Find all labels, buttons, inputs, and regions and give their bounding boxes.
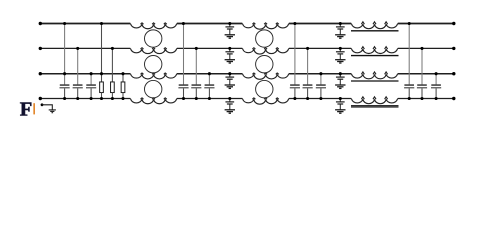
resistor R1: [100, 82, 104, 93]
node junction row 3 x=229.8: [228, 72, 231, 75]
svg-text:F: F: [20, 98, 33, 120]
wire to neutral: [101, 93, 103, 99]
node junction row 4 x=64.6: [63, 97, 66, 100]
capacitor Cg4 to ground on row 4: [229, 99, 231, 102]
cursor bar (orange): [33, 103, 35, 114]
capacitor C10: [404, 84, 414, 86]
node junction row 4 x=101.5: [100, 97, 103, 100]
node junction row 2 x=340.3: [339, 47, 342, 50]
wire to neutral: [307, 88, 309, 98]
wire to neutral: [77, 88, 79, 98]
node junction row 4 x=307.6: [306, 97, 309, 100]
node terminal left row 3: [39, 72, 42, 75]
capacitor C9: [316, 84, 326, 86]
capacitor C6: [205, 84, 215, 86]
node junction row 3 x=340.3: [339, 72, 342, 75]
inductor L4 (row 4 stage 1): [130, 98, 177, 104]
node terminal right row 4: [452, 97, 455, 100]
wire vertical from row 1 at x=183.5: [183, 24, 185, 85]
wire to neutral: [294, 88, 296, 98]
wire to neutral: [195, 88, 197, 98]
capacitor Cg2 to ground on row 2: [229, 48, 231, 51]
wire to neutral: [64, 88, 66, 98]
wire phase B bus (row 2): [40, 47, 454, 49]
node junction row 3 x=101.5: [100, 72, 103, 75]
capacitor C11: [417, 84, 427, 86]
core of iron-core inductor L12 (row 4): [351, 105, 399, 107]
wire vertical from row 1 at x=294.9: [294, 24, 296, 85]
node terminal left row 2: [39, 47, 42, 50]
ground symbol under Cg7: [335, 84, 345, 86]
iron-core inductor L10 (row 2 stage 3): [351, 47, 398, 54]
wire phase A bus (row 1): [40, 23, 454, 25]
coupling circle stage 2 between rows 2-3: [256, 55, 273, 72]
capacitor C5: [192, 84, 202, 86]
wire vertical from row 2 at x=196.3: [195, 48, 197, 84]
node junction row 4 x=320.9: [319, 97, 322, 100]
node junction row 2 x=196.3: [195, 47, 198, 50]
node junction row 3 x=123.0: [121, 72, 124, 75]
coupling circle stage 1 between rows 1-2: [145, 30, 162, 47]
wire to neutral: [208, 88, 210, 98]
wire to neutral: [320, 88, 322, 98]
iron-core inductor L9 (row 1 stage 3): [351, 22, 398, 29]
node junction row 4 x=91.1: [90, 97, 93, 100]
capacitor C7: [290, 84, 300, 86]
node junction row 4 x=112.4: [111, 97, 114, 100]
wire vertical from row 1 at x=409.2: [408, 24, 410, 85]
capacitor Cg3 to ground on row 3: [229, 74, 231, 77]
ground symbol (bottom-left): [49, 109, 56, 111]
node junction row 1 x=409.2: [408, 22, 411, 25]
ground symbol under Cg6: [335, 59, 345, 61]
node terminal right row 1: [452, 22, 455, 25]
node terminal left row 4: [39, 97, 42, 100]
inductor L8 (row 4 stage 2): [242, 98, 289, 104]
node junction row 2 x=112.4: [111, 47, 114, 50]
inductor L1 (row 1 stage 1): [130, 23, 177, 29]
node junction row 1 x=340.3: [339, 22, 342, 25]
node terminal left row 1: [39, 22, 42, 25]
capacitor C3: [86, 84, 96, 86]
node junction row 3 x=320.9: [319, 72, 322, 75]
capacitor Cg6 to ground on row 2: [339, 48, 341, 51]
inductor L6 (row 2 stage 2): [242, 48, 289, 54]
node junction row 1 x=64.6: [63, 22, 66, 25]
core of iron-core inductor L11 (row 3): [351, 80, 399, 82]
node junction row 2 x=77.7: [76, 47, 79, 50]
wire vertical from row 3 at x=209.4: [208, 74, 210, 85]
iron-core inductor L12 (row 4 stage 3): [351, 97, 398, 104]
wire to neutral: [408, 88, 410, 98]
wire neutral bus (row 4): [40, 98, 454, 100]
wire vertical from row 2 at x=112.4: [111, 48, 113, 82]
node junction row 4 x=436.1: [435, 97, 438, 100]
wire vertical from row 1 at x=101.5: [101, 24, 103, 83]
node junction row 1 x=183.4: [182, 22, 185, 25]
coupling circle stage 1 between rows 2-3: [145, 55, 162, 72]
node junction row 2 x=307.6: [306, 47, 309, 50]
node junction row 4 x=422.0: [420, 97, 423, 100]
capacitor C8: [303, 84, 313, 86]
capacitor C1: [60, 84, 70, 86]
capacitor Cg5 to ground on row 1: [339, 24, 341, 27]
node junction row 4 x=294.9: [293, 97, 296, 100]
core of iron-core inductor L10 (row 2): [351, 55, 399, 57]
node junction row 2 x=422.0: [420, 47, 423, 50]
capacitor C12: [431, 84, 441, 86]
inductor L5 (row 1 stage 2): [242, 23, 289, 29]
node junction row 1 x=101.5: [100, 22, 103, 25]
coupling circle stage 1 between rows 3-4: [145, 80, 162, 97]
resistor R2: [111, 82, 115, 93]
node terminal right row 2: [452, 47, 455, 50]
node ground stub start: [41, 103, 44, 106]
iron-core inductor L11 (row 3 stage 3): [351, 72, 398, 79]
node junction row 3 x=91.1: [90, 72, 93, 75]
capacitor Cg7 to ground on row 3: [339, 74, 341, 77]
node junction row 1 x=229.8: [228, 22, 231, 25]
wire vertical from row 2 at x=307.6: [307, 48, 309, 84]
inductor L2 (row 2 stage 1): [130, 48, 177, 54]
node junction row 4 x=209.4: [208, 97, 211, 100]
wire to neutral: [122, 93, 124, 99]
capacitor Cg1 to ground on row 1: [229, 24, 231, 27]
node terminal right row 3: [452, 72, 455, 75]
capacitor C4: [179, 84, 189, 86]
node junction row 4 x=77.7: [76, 97, 79, 100]
node junction row 4 x=183.5: [182, 97, 185, 100]
wire vertical from row 3 at x=123.0: [122, 74, 124, 82]
wire vertical from row 3 at x=436.1: [435, 74, 437, 85]
wire to neutral: [111, 93, 113, 99]
node junction row 3 x=436.1: [435, 72, 438, 75]
wire vertical from row 2 at x=422.0: [421, 48, 423, 84]
node junction row 4 x=196.3: [195, 97, 198, 100]
inductor L3 (row 3 stage 1): [130, 73, 177, 79]
wire vertical from row 2 at x=77.7: [77, 48, 79, 84]
ground symbol under Cg2: [225, 59, 235, 61]
ground symbol under Cg5: [335, 34, 345, 36]
ground symbol under Cg1: [225, 34, 235, 36]
node junction row 3 x=64.6: [63, 72, 66, 75]
node junction row 4 x=123.0: [121, 97, 124, 100]
wire vertical from row 3 at x=91.1: [90, 74, 92, 85]
coupling circle stage 2 between rows 3-4: [256, 80, 273, 97]
wire to neutral: [90, 88, 92, 98]
core of iron-core inductor L9 (row 1): [351, 30, 399, 32]
node junction row 4 x=409.2: [408, 97, 411, 100]
wire to neutral: [183, 88, 185, 98]
node junction row 4 x=340.3: [339, 97, 342, 100]
wire to neutral: [421, 88, 423, 98]
resistor R3: [121, 82, 125, 93]
wire to ground: [42, 105, 52, 110]
capacitor Cg8 to ground on row 4: [339, 99, 341, 102]
node junction row 1 x=294.9: [293, 22, 296, 25]
coupling circle stage 2 between rows 1-2: [256, 30, 273, 47]
node junction row 2 x=229.8: [228, 47, 231, 50]
ground symbol under Cg8: [335, 109, 345, 111]
inductor L7 (row 3 stage 2): [242, 73, 289, 79]
wire vertical from row 3 at x=320.9: [320, 74, 322, 85]
node junction row 3 x=209.4: [208, 72, 211, 75]
wire phase C bus (row 3): [40, 73, 454, 75]
capacitor C2: [73, 84, 83, 86]
ground symbol under Cg4: [225, 109, 235, 111]
ground symbol under Cg3: [225, 84, 235, 86]
wire vertical from row 1 at x=64.6: [64, 24, 66, 85]
node junction row 4 x=229.8: [228, 97, 231, 100]
wire to neutral: [435, 88, 437, 98]
